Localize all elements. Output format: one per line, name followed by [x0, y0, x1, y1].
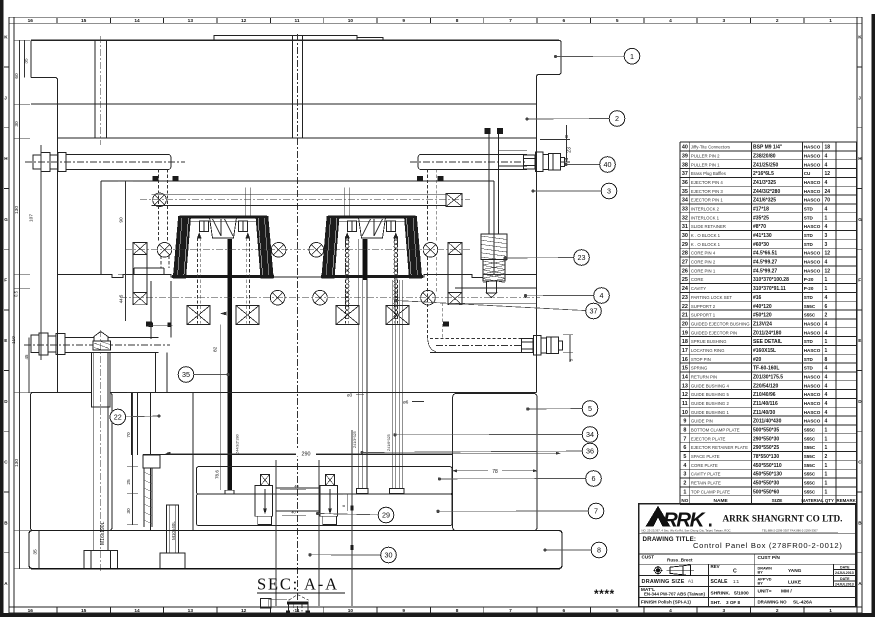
mold center line	[297, 34, 299, 612]
svg-text:78: 78	[492, 469, 498, 475]
ejector plate 7	[197, 494, 453, 526]
svg-text:4: 4	[825, 374, 828, 380]
svg-text:SPACE PLATE: SPACE PLATE	[691, 454, 720, 459]
svg-text:2: 2	[683, 481, 686, 487]
svg-text:6: 6	[825, 304, 828, 310]
svg-text:Brass Plug Baffles: Brass Plug Baffles	[691, 171, 726, 176]
svg-text:4: 4	[600, 291, 604, 300]
svg-text:#4.5*66.51: #4.5*66.51	[753, 251, 777, 257]
svg-text:Z011/40*430: Z011/40*430	[753, 419, 782, 425]
svg-text:CAVITY PLATE: CAVITY PLATE	[691, 472, 721, 477]
svg-text:HASCO: HASCO	[804, 189, 821, 194]
svg-text:#50*120: #50*120	[753, 313, 772, 319]
svg-text:NO: NO	[681, 498, 688, 503]
puller pin assembly lower left	[24, 333, 170, 393]
svg-text:40: 40	[291, 511, 295, 515]
svg-text:5: 5	[569, 358, 574, 361]
support 22	[151, 393, 194, 531]
svg-text:18: 18	[682, 339, 688, 345]
svg-text:HASCO: HASCO	[804, 224, 821, 229]
svg-text:#35*25: #35*25	[753, 215, 769, 221]
ejector bolts 29 and center recess	[255, 475, 352, 525]
svg-text:CORE PIN 2: CORE PIN 2	[691, 260, 716, 265]
svg-text:90: 90	[119, 217, 125, 223]
svg-text:#16: #16	[753, 295, 762, 301]
svg-text:25: 25	[682, 277, 688, 283]
vertical water channel right	[485, 128, 528, 234]
svg-text:450*550*110: 450*550*110	[753, 463, 782, 469]
svg-text:14: 14	[134, 18, 140, 24]
svg-text:29: 29	[382, 511, 390, 520]
ejector pin right thin pair A	[357, 239, 369, 494]
cust cells	[642, 555, 781, 563]
svg-text:#20: #20	[753, 357, 762, 363]
svg-text:5: 5	[683, 454, 686, 460]
balloon 8	[591, 542, 607, 558]
balloon 34 leader	[394, 433, 590, 436]
svg-text:SPRING: SPRING	[691, 366, 708, 371]
svg-text:Z11/40/30: Z11/40/30	[753, 410, 775, 416]
balloon 36 leader	[361, 451, 590, 454]
svg-text:DATE: DATE	[840, 577, 850, 581]
svg-text:4: 4	[825, 321, 828, 327]
svg-text:40: 40	[294, 485, 298, 489]
svg-text:23: 23	[578, 253, 586, 262]
dim chain 70 25 30	[126, 393, 138, 525]
balloon 23	[574, 250, 590, 266]
svg-text:16: 16	[28, 608, 34, 614]
svg-text:6: 6	[683, 445, 686, 451]
svg-text:K . O BLOCK 1: K . O BLOCK 1	[691, 233, 721, 238]
dimension 82	[213, 312, 227, 490]
balloon 5 leader	[526, 408, 590, 411]
balloon 23 leader	[504, 257, 582, 260]
svg-text:4: 4	[825, 410, 828, 416]
svg-text:1: 1	[825, 277, 828, 283]
svg-text:FINISH: FINISH	[641, 600, 657, 606]
svg-text:SUPPORT 1: SUPPORT 1	[691, 313, 716, 318]
section label SEC: A-A	[257, 575, 345, 594]
svg-text:7: 7	[509, 608, 512, 614]
svg-text:4: 4	[825, 180, 828, 186]
svg-text:30: 30	[682, 233, 688, 239]
dimension 290	[166, 450, 560, 458]
svg-text:7: 7	[683, 436, 686, 442]
svg-text:290*550*25: 290*550*25	[753, 445, 779, 451]
balloon 37	[586, 303, 602, 319]
balloon 3	[601, 183, 617, 199]
svg-text:EJECTOR PLATE: EJECTOR PLATE	[691, 436, 726, 441]
svg-text:QTY: QTY	[825, 498, 834, 503]
svg-text:Z41/6*325: Z41/6*325	[753, 198, 776, 204]
sprue bushing detail bottom	[261, 595, 310, 613]
svg-text:7: 7	[509, 18, 512, 24]
svg-text:#8*70: #8*70	[753, 224, 766, 230]
jiffy-tite connector 40 top right with pipe	[410, 152, 565, 335]
svg-text:GUIDED EJECTOR PIN: GUIDED EJECTOR PIN	[691, 330, 737, 335]
svg-text:ø3: ø3	[347, 393, 353, 398]
svg-text:C: C	[733, 568, 737, 574]
svg-text:310*370*91.11: 310*370*91.11	[753, 286, 786, 292]
svg-text:10: 10	[682, 410, 688, 416]
svg-text:SHRINK.: SHRINK.	[711, 591, 731, 597]
svg-text:1: 1	[825, 286, 828, 292]
core plate 4	[30, 275, 536, 393]
border grid letters left	[4, 35, 9, 586]
svg-text:MATERIAL: MATERIAL	[801, 498, 824, 503]
balloon 6 leader	[438, 478, 594, 481]
svg-text:HASCO: HASCO	[804, 348, 821, 353]
drawing title	[643, 536, 843, 550]
svg-text:2: 2	[776, 608, 779, 614]
svg-text:STD: STD	[804, 233, 814, 238]
balloon 3 leader	[532, 190, 609, 193]
svg-text:SUPPORT 2: SUPPORT 2	[691, 304, 716, 309]
svg-text:#4.5*99.27: #4.5*99.27	[753, 268, 777, 274]
svg-text:21: 21	[682, 313, 688, 319]
svg-text:#60*30: #60*30	[753, 242, 769, 248]
svg-text:J: J	[858, 95, 861, 100]
svg-text:LUKE: LUKE	[788, 579, 802, 585]
svg-text:EN-344 PW-707 ABS (Taiwan): EN-344 PW-707 ABS (Taiwan)	[644, 591, 705, 596]
svg-text:78*550*130: 78*550*130	[753, 454, 779, 460]
svg-text:Z011/24*180: Z011/24*180	[753, 330, 782, 336]
balloon 37 leader	[395, 299, 594, 311]
svg-text:Polish (SPI-A1): Polish (SPI-A1)	[658, 600, 691, 605]
balloon 35 leader	[186, 373, 229, 376]
svg-text:SEE DETAIL: SEE DETAIL	[753, 339, 782, 345]
svg-text:32: 32	[682, 215, 688, 221]
svg-text:NO. 23-25,367, 4 Sec. Wu Ku Rd: NO. 23-25,367, 4 Sec. Wu Ku Rd, San Chun…	[642, 528, 732, 532]
svg-text:11: 11	[682, 401, 688, 407]
svg-text:GUIDE PIN: GUIDE PIN	[691, 419, 713, 424]
svg-text:14: 14	[134, 608, 140, 614]
svg-text:5: 5	[588, 404, 592, 413]
cavity plate 3	[58, 138, 537, 275]
dim chain 90 44.5	[118, 181, 133, 321]
drawn approved cells	[758, 565, 854, 605]
svg-text:36: 36	[682, 180, 688, 186]
svg-text:Z13V/24: Z13V/24	[753, 321, 772, 327]
svg-text:DATE: DATE	[840, 565, 850, 569]
svg-text:8: 8	[683, 428, 686, 434]
svg-text:#160X15L: #160X15L	[753, 348, 776, 354]
rev scale cells	[642, 564, 740, 585]
svg-text:S55C: S55C	[804, 436, 816, 441]
svg-text:28: 28	[682, 251, 688, 257]
title block	[639, 504, 856, 607]
svg-text:15: 15	[81, 18, 87, 24]
svg-text:35: 35	[682, 189, 688, 195]
svg-text:UNIT=: UNIT=	[758, 588, 772, 594]
projection symbol	[653, 565, 694, 576]
balloon 2	[609, 111, 625, 127]
svg-text:DRAWING TITLE:: DRAWING TITLE:	[643, 536, 697, 543]
svg-text:24JUL2013: 24JUL2013	[835, 582, 854, 586]
svg-text:STOP PIN: STOP PIN	[691, 357, 711, 362]
svg-text:Russ_Brect: Russ_Brect	[667, 557, 693, 562]
svg-text:5: 5	[616, 608, 619, 614]
svg-text:Z10/40/96: Z10/40/96	[753, 392, 776, 398]
svg-text:5/1000: 5/1000	[734, 591, 749, 597]
svg-text:30: 30	[126, 508, 132, 514]
svg-text:6: 6	[562, 18, 565, 24]
svg-text:1: 1	[825, 428, 828, 434]
space plate 5 right	[453, 394, 537, 531]
svg-text:10: 10	[348, 608, 354, 614]
svg-text:STD: STD	[804, 366, 814, 371]
svg-text:82: 82	[213, 346, 219, 352]
water circles row A	[125, 242, 470, 257]
svg-text:23: 23	[682, 295, 688, 301]
svg-text:Z41/25/250: Z41/25/250	[753, 162, 779, 168]
svg-text:4: 4	[669, 608, 672, 614]
svg-text:HASCO: HASCO	[804, 268, 821, 273]
svg-text:Z41/6*325: Z41/6*325	[387, 434, 391, 451]
svg-text:SLIDE RETAINER: SLIDE RETAINER	[691, 224, 726, 229]
svg-text:Z11/40/116: Z11/40/116	[753, 401, 778, 407]
svg-text:MM /: MM /	[781, 588, 792, 594]
svg-text:290*550*30: 290*550*30	[753, 436, 779, 442]
svg-text:130: 130	[14, 459, 20, 467]
parts list table	[680, 142, 857, 504]
dim labels phi3 phi6	[347, 393, 424, 405]
svg-text:SL-426A: SL-426A	[793, 600, 813, 606]
svg-text:1: 1	[825, 489, 828, 495]
svg-text:HASCO: HASCO	[804, 153, 821, 158]
svg-text:BY: BY	[758, 581, 764, 585]
svg-text:CAVITY: CAVITY	[691, 286, 706, 291]
svg-text:Z20/54/120: Z20/54/120	[753, 383, 779, 389]
svg-text:PULLER PIN 1: PULLER PIN 1	[691, 162, 720, 167]
return pin spring column	[143, 455, 160, 527]
balloon 4	[594, 288, 610, 304]
svg-text:DRAWING SIZE: DRAWING SIZE	[642, 579, 685, 585]
svg-text:GUIDED EJECTOR BUSHING: GUIDED EJECTOR BUSHING	[691, 321, 750, 326]
svg-text:24: 24	[682, 286, 688, 292]
svg-text:8: 8	[456, 608, 459, 614]
svg-text:BY: BY	[758, 570, 764, 574]
svg-text:#4.5*99.27: #4.5*99.27	[753, 260, 777, 266]
svg-text:13: 13	[682, 383, 688, 389]
svg-text:8: 8	[825, 357, 828, 363]
svg-text:2: 2	[825, 313, 828, 319]
svg-text:#41*130: #41*130	[753, 233, 772, 239]
water circles row B	[120, 290, 540, 305]
svg-text:HASCO: HASCO	[804, 198, 821, 203]
svg-text:REV: REV	[711, 564, 720, 569]
svg-text:1: 1	[683, 489, 686, 495]
svg-text:HASCO: HASCO	[804, 401, 821, 406]
svg-text:STD: STD	[804, 357, 814, 362]
svg-text:18: 18	[825, 145, 831, 151]
border grid numbers top	[28, 18, 833, 24]
lower right water pipe with jiffy connector	[428, 303, 563, 355]
svg-text:1: 1	[825, 339, 828, 345]
svg-text:12: 12	[241, 18, 247, 24]
svg-text:500*550*60: 500*550*60	[753, 489, 779, 495]
svg-text:450*550*30: 450*550*30	[753, 481, 779, 487]
balloon 2 leader	[526, 118, 617, 121]
svg-text:HASCO: HASCO	[804, 330, 821, 335]
svg-text:2: 2	[776, 18, 779, 24]
svg-text:20: 20	[682, 321, 688, 327]
svg-text:G: G	[858, 217, 862, 222]
svg-text:29: 29	[682, 242, 688, 248]
balloon 22 leader	[118, 415, 161, 418]
dimension 5 right	[563, 335, 574, 362]
svg-text:F: F	[858, 278, 861, 283]
svg-text:4: 4	[825, 401, 828, 407]
svg-text:19: 19	[682, 330, 688, 336]
svg-text:70: 70	[126, 432, 132, 438]
svg-text:110: 110	[11, 336, 17, 344]
svg-text:60: 60	[14, 73, 20, 79]
svg-text:STD: STD	[804, 207, 814, 212]
balloon 7	[588, 503, 604, 519]
svg-text:S55C: S55C	[804, 313, 816, 318]
balloon 5	[582, 401, 598, 417]
svg-text:S55C: S55C	[804, 489, 816, 494]
svg-text:HASCO: HASCO	[804, 410, 821, 415]
svg-text:1: 1	[825, 481, 828, 487]
svg-text:SHT.: SHT.	[711, 600, 721, 606]
svg-text:EJECTOR PIN 1: EJECTOR PIN 1	[691, 198, 724, 203]
svg-text:4: 4	[825, 366, 828, 372]
svg-text:S55C: S55C	[804, 481, 816, 486]
svg-text:8: 8	[597, 546, 601, 555]
svg-text:HASCO: HASCO	[804, 419, 821, 424]
svg-text:13: 13	[188, 608, 194, 614]
svg-text:SEC: A-A: SEC: A-A	[257, 575, 339, 594]
upper cooling pipe row	[140, 193, 470, 207]
svg-text:2: 2	[825, 454, 828, 460]
svg-text:25: 25	[126, 479, 132, 485]
svg-text:34: 34	[586, 430, 594, 439]
dimension 78 space plate	[453, 467, 537, 475]
svg-text:TF-60-160L: TF-60-160L	[753, 366, 779, 372]
svg-text:26: 26	[682, 268, 688, 274]
ejector pin labels	[236, 431, 392, 454]
svg-text:3: 3	[723, 18, 726, 24]
svg-text:S55C: S55C	[804, 428, 816, 433]
svg-text:GUIDE BUSHING 2: GUIDE BUSHING 2	[691, 401, 730, 406]
svg-text:HASCO: HASCO	[804, 321, 821, 326]
svg-text:YANG: YANG	[788, 568, 802, 574]
balloon 34	[582, 427, 598, 443]
svg-text:3 OF 8: 3 OF 8	[726, 600, 740, 605]
svg-text:SPRUE BUSHING: SPRUE BUSHING	[691, 339, 727, 344]
eyebolt hole top left	[95, 36, 107, 145]
svg-text:BSP M9 1/4": BSP M9 1/4"	[753, 145, 783, 151]
retain plate 2	[58, 104, 537, 138]
svg-text:CUST P/N: CUST P/N	[758, 555, 781, 561]
balloon 30 leader	[309, 553, 389, 556]
svg-text:STD: STD	[804, 295, 814, 300]
svg-text:4: 4	[825, 153, 828, 159]
svg-text:1: 1	[825, 436, 828, 442]
svg-text:INTERLOCK 1: INTERLOCK 1	[691, 215, 720, 220]
svg-text:24JUL2013: 24JUL2013	[835, 571, 854, 575]
svg-text:ARRK SHANGRNT CO LTD.: ARRK SHANGRNT CO LTD.	[723, 514, 843, 524]
balloon 35	[178, 367, 194, 383]
left dimension chain	[11, 40, 41, 568]
svg-text:310*370*100.28: 310*370*100.28	[753, 277, 789, 283]
svg-text:1: 1	[825, 445, 828, 451]
svg-text:37: 37	[682, 171, 688, 177]
insert seam lines right	[455, 288, 537, 303]
svg-text:12: 12	[241, 608, 247, 614]
svg-text:K . O BLOCK 1: K . O BLOCK 1	[691, 242, 721, 247]
svg-text:12: 12	[825, 171, 831, 177]
svg-text:BOTTOM CLAMP PLATE: BOTTOM CLAMP PLATE	[691, 428, 740, 433]
svg-text:35: 35	[182, 370, 190, 379]
balloon 7 leader	[437, 510, 596, 513]
svg-text:GUIDE BUSHING 4: GUIDE BUSHING 4	[691, 383, 730, 388]
svg-text:CORE PIN 1: CORE PIN 1	[691, 268, 716, 273]
balloon 1	[624, 48, 640, 64]
svg-text:CU: CU	[804, 171, 811, 176]
svg-text:22: 22	[682, 304, 688, 310]
svg-text:Z44/3/2*280: Z44/3/2*280	[753, 189, 780, 195]
svg-text:24: 24	[825, 189, 831, 195]
svg-text:INTERLOCK 2: INTERLOCK 2	[691, 207, 720, 212]
svg-text:HASCO: HASCO	[804, 374, 821, 379]
svg-text:30: 30	[385, 551, 393, 560]
balloon 8 leader	[544, 549, 599, 552]
balloon 6	[586, 471, 602, 487]
svg-text:4: 4	[825, 330, 828, 336]
svg-text:39: 39	[682, 153, 688, 159]
svg-text:12: 12	[682, 392, 688, 398]
svg-text:31: 31	[682, 224, 688, 230]
water channel verticals left right	[133, 255, 462, 293]
svg-text:4: 4	[825, 383, 828, 389]
svg-text:17: 17	[682, 348, 688, 354]
svg-text:LOCATING RING: LOCATING RING	[691, 348, 725, 353]
svg-text:HASCO: HASCO	[804, 260, 821, 265]
guided ejector pin pair B	[390, 280, 405, 494]
svg-text:8: 8	[456, 18, 459, 24]
svg-text:SCALE: SCALE	[711, 579, 729, 585]
svg-text:1: 1	[825, 215, 828, 221]
svg-text:37: 37	[590, 307, 598, 316]
left water down pipe	[148, 281, 173, 339]
svg-text:CUST: CUST	[642, 555, 655, 560]
svg-text:GUIDE BUSHING 1: GUIDE BUSHING 1	[691, 410, 730, 415]
parting line	[58, 268, 537, 278]
svg-text:15: 15	[81, 608, 87, 614]
svg-text:REMARK: REMARK	[837, 498, 857, 503]
svg-text:33: 33	[682, 207, 688, 213]
svg-text:J: J	[4, 95, 7, 100]
svg-text:HASCO: HASCO	[804, 392, 821, 397]
balloon 29	[378, 507, 394, 523]
svg-text:E: E	[858, 338, 861, 343]
svg-text:6: 6	[562, 608, 565, 614]
puller pin 39 assembly top left	[25, 153, 185, 243]
svg-text:****: ****	[594, 587, 615, 601]
svg-text:4: 4	[825, 392, 828, 398]
svg-text:EJECTOR PIN 4: EJECTOR PIN 4	[691, 180, 724, 185]
svg-text:S55C: S55C	[804, 454, 816, 459]
svg-text:44.5: 44.5	[119, 294, 124, 303]
svg-text:Z41/3*325: Z41/3*325	[753, 180, 776, 186]
sprue bushing 18 shank	[293, 36, 303, 138]
svg-text:4: 4	[825, 419, 828, 425]
svg-text:4: 4	[825, 224, 828, 230]
svg-text:P-20: P-20	[804, 286, 814, 291]
